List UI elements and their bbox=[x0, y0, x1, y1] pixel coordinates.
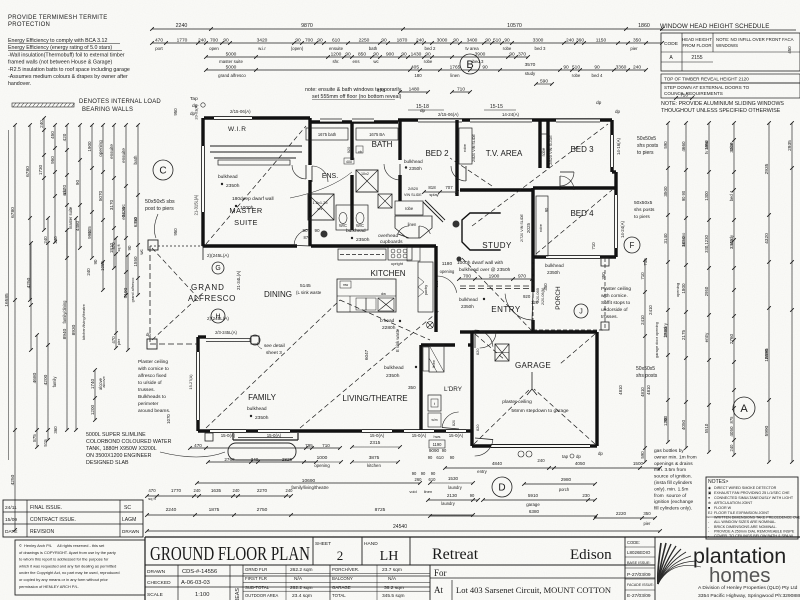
svg-text:350: 350 bbox=[601, 272, 606, 280]
svg-text:Edison: Edison bbox=[570, 547, 612, 563]
svg-text:5145: 5145 bbox=[300, 283, 311, 289]
svg-text:WRITTEN DIMENSIONS TAKE PRECED: WRITTEN DIMENSIONS TAKE PRECEDENCE OVE bbox=[714, 516, 800, 520]
svg-text:fill cylinders only).: fill cylinders only). bbox=[654, 506, 692, 512]
svg-text:LIVING/THEATRE: LIVING/THEATRE bbox=[342, 394, 407, 403]
svg-text:ensuite: ensuite bbox=[121, 148, 126, 163]
svg-text:opening: opening bbox=[314, 463, 330, 468]
svg-text:PROVIDE A 250mm DIAL REMOVEABL: PROVIDE A 250mm DIAL REMOVEABLE INSPE bbox=[714, 529, 795, 533]
svg-text:21-315L(A): 21-315L(A) bbox=[194, 194, 199, 215]
svg-text:90: 90 bbox=[509, 52, 515, 58]
svg-text:3400: 3400 bbox=[467, 38, 478, 44]
svg-text:study: study bbox=[729, 234, 734, 245]
svg-text:ignition (exchange: ignition (exchange bbox=[654, 499, 694, 505]
svg-text:overhead: overhead bbox=[378, 233, 398, 239]
svg-text:bulkhead: bulkhead bbox=[384, 365, 404, 371]
svg-text:1770: 1770 bbox=[171, 488, 182, 493]
svg-text:entry: entry bbox=[704, 332, 709, 342]
svg-text:1000: 1000 bbox=[317, 455, 328, 461]
svg-text:15-27(A): 15-27(A) bbox=[188, 374, 193, 390]
svg-text:9090: 9090 bbox=[429, 448, 440, 453]
svg-text:820: 820 bbox=[475, 348, 480, 355]
svg-text:GARAGE: GARAGE bbox=[515, 361, 551, 370]
svg-text:OUTDOOR AREA: OUTDOOR AREA bbox=[245, 593, 278, 598]
svg-text:AREAS: AREAS bbox=[235, 588, 241, 600]
svg-text:laundry: laundry bbox=[663, 322, 668, 336]
svg-text:3000: 3000 bbox=[437, 38, 448, 44]
svg-text:470: 470 bbox=[148, 488, 156, 493]
svg-text:1:100: 1:100 bbox=[195, 592, 209, 598]
svg-text:opening: opening bbox=[98, 140, 103, 157]
svg-text:950: 950 bbox=[173, 108, 178, 116]
svg-text:Energy Efficiency (energy rati: Energy Efficiency (energy rating of 5.0 … bbox=[8, 45, 112, 51]
svg-text:dp: dp bbox=[146, 332, 151, 337]
svg-text:16585: 16585 bbox=[4, 293, 10, 307]
svg-text:405: 405 bbox=[411, 65, 419, 71]
svg-text:with cornice to: with cornice to bbox=[138, 366, 169, 372]
svg-text:345.5 sqm: 345.5 sqm bbox=[382, 593, 405, 599]
svg-text:2/820 VIN SLIDE: 2/820 VIN SLIDE bbox=[548, 135, 553, 165]
svg-text:bath: bath bbox=[133, 155, 138, 164]
svg-text:2250: 2250 bbox=[359, 38, 370, 44]
svg-text:1635: 1635 bbox=[211, 488, 222, 493]
svg-text:240: 240 bbox=[198, 38, 206, 44]
svg-text:DATE: DATE bbox=[5, 529, 18, 535]
svg-text:WINDOWS: WINDOWS bbox=[716, 43, 738, 48]
svg-text:VIN SLIDE: VIN SLIDE bbox=[404, 193, 422, 197]
svg-text:G: G bbox=[215, 265, 220, 272]
svg-text:DENOTES INTERNAL LOAD: DENOTES INTERNAL LOAD bbox=[79, 99, 161, 105]
svg-text:linen: linen bbox=[408, 222, 417, 227]
svg-text:4810: 4810 bbox=[640, 387, 645, 397]
svg-text:4320: 4320 bbox=[764, 233, 770, 244]
svg-text:alcove: alcove bbox=[101, 376, 106, 387]
svg-text:590: 590 bbox=[640, 451, 645, 459]
svg-text:470: 470 bbox=[111, 336, 116, 344]
svg-text:90: 90 bbox=[317, 38, 323, 44]
svg-text:90: 90 bbox=[594, 65, 600, 71]
svg-text:N/A: N/A bbox=[294, 576, 303, 582]
svg-text:1500: 1500 bbox=[633, 461, 644, 466]
svg-text:COLORBOND COLOURED WATER: COLORBOND COLOURED WATER bbox=[86, 439, 172, 445]
svg-text:3170: 3170 bbox=[109, 199, 114, 210]
svg-text:90: 90 bbox=[421, 471, 426, 476]
svg-text:TOP OF TIMBER REVEAL HEIGHT 21: TOP OF TIMBER REVEAL HEIGHT 2120 bbox=[664, 77, 749, 82]
svg-text:240: 240 bbox=[194, 488, 202, 493]
svg-text:TOTAL: TOTAL bbox=[332, 593, 346, 598]
svg-text:to whom this report is address: to whom this report is addressed for the… bbox=[19, 557, 109, 562]
svg-text:1000h dwarf wall with: 1000h dwarf wall with bbox=[457, 260, 503, 266]
svg-text:w/m: w/m bbox=[431, 418, 437, 422]
svg-text:180: 180 bbox=[414, 73, 422, 78]
svg-text:330,1230: 330,1230 bbox=[704, 235, 709, 253]
svg-text:1800: 1800 bbox=[681, 283, 686, 294]
svg-text:5910: 5910 bbox=[528, 493, 539, 498]
svg-text:6780: 6780 bbox=[10, 207, 16, 218]
svg-text:262.2 sqm: 262.2 sqm bbox=[290, 585, 313, 591]
svg-text:360: 360 bbox=[576, 38, 584, 44]
svg-text:2750: 2750 bbox=[257, 507, 268, 513]
svg-text:2/3-245L(A): 2/3-245L(A) bbox=[215, 330, 237, 335]
svg-text:PROTECTION: PROTECTION bbox=[8, 22, 50, 28]
svg-text:framed walls (not between Hous: framed walls (not between House & Garage… bbox=[8, 60, 112, 66]
svg-text:6380: 6380 bbox=[529, 509, 540, 514]
svg-text:4680: 4680 bbox=[32, 372, 38, 383]
svg-text:ON 3500X1200 ENGINEER: ON 3500X1200 ENGINEER bbox=[86, 453, 152, 459]
svg-text:707: 707 bbox=[445, 185, 453, 190]
svg-text:970: 970 bbox=[518, 274, 526, 280]
svg-text:bulkhead: bulkhead bbox=[218, 174, 238, 180]
svg-text:entry: entry bbox=[477, 469, 488, 474]
svg-text:robe: robe bbox=[538, 223, 543, 232]
svg-text:ensuite: ensuite bbox=[109, 144, 114, 159]
svg-text:2350h: 2350h bbox=[409, 166, 422, 171]
svg-text:robe: robe bbox=[503, 46, 512, 51]
svg-text:A: A bbox=[740, 403, 748, 415]
svg-text:240: 240 bbox=[43, 236, 48, 244]
svg-text:510: 510 bbox=[493, 38, 501, 44]
svg-text:dw: dw bbox=[381, 291, 386, 296]
svg-text:5190: 5190 bbox=[123, 287, 129, 298]
svg-text:405: 405 bbox=[87, 226, 92, 234]
svg-text:BEARING WALLS: BEARING WALLS bbox=[82, 107, 133, 113]
svg-text:1770: 1770 bbox=[177, 38, 188, 44]
svg-text:850: 850 bbox=[358, 52, 366, 58]
svg-text:J: J bbox=[579, 309, 583, 316]
svg-text:23.4 sqm: 23.4 sqm bbox=[292, 593, 312, 599]
svg-text:-Wall insulation(Thermobuff) f: -Wall insulation(Thermobuff) foil to ext… bbox=[8, 52, 125, 58]
svg-text:gas bottles by: gas bottles by bbox=[654, 448, 684, 454]
svg-text:4250: 4250 bbox=[26, 277, 32, 288]
svg-text:1740: 1740 bbox=[90, 378, 95, 389]
svg-text:240: 240 bbox=[39, 120, 44, 128]
svg-text:EJ: EJ bbox=[708, 511, 712, 515]
svg-text:Lot 403 Sarsenet Circuit, MOUN: Lot 403 Sarsenet Circuit, MOUNT COTTON bbox=[456, 585, 611, 595]
svg-text:sq ft: sq ft bbox=[148, 496, 156, 501]
svg-text:14-24(A): 14-24(A) bbox=[502, 112, 520, 117]
svg-text:L'DRY: L'DRY bbox=[444, 386, 463, 393]
svg-text:mw: mw bbox=[343, 283, 349, 287]
svg-text:8940: 8940 bbox=[62, 328, 68, 339]
svg-text:2/15-06(A): 2/15-06(A) bbox=[438, 112, 459, 117]
svg-text:450: 450 bbox=[787, 46, 792, 54]
svg-text:3500: 3500 bbox=[663, 186, 668, 197]
svg-text:bulkhead: bulkhead bbox=[459, 297, 478, 302]
svg-text:400: 400 bbox=[346, 160, 352, 164]
svg-text:opening: opening bbox=[440, 269, 455, 274]
svg-text:CODE: CODE bbox=[664, 41, 679, 47]
svg-text:upright: upright bbox=[391, 261, 404, 266]
svg-text:820: 820 bbox=[452, 420, 456, 426]
svg-text:875: 875 bbox=[729, 416, 734, 424]
svg-text:E-27/03/09: E-27/03/09 bbox=[627, 593, 651, 599]
svg-text:90: 90 bbox=[431, 471, 436, 476]
svg-text:pantry: pantry bbox=[424, 285, 428, 295]
svg-text:2/720 VIN SLIDE: 2/720 VIN SLIDE bbox=[520, 213, 524, 242]
svg-text:trusses.: trusses. bbox=[138, 387, 155, 393]
svg-text:5990: 5990 bbox=[764, 425, 770, 436]
svg-text:STEP DOWN AT EXTERNAL DOORS TO: STEP DOWN AT EXTERNAL DOORS TO bbox=[664, 85, 750, 90]
svg-text:15/09: 15/09 bbox=[5, 517, 17, 523]
svg-text:pier: pier bbox=[644, 521, 652, 526]
svg-text:bulkhead: bulkhead bbox=[545, 263, 564, 268]
svg-text:4200: 4200 bbox=[43, 374, 49, 385]
svg-text:90: 90 bbox=[563, 65, 569, 71]
svg-text:linen: linen bbox=[450, 73, 460, 78]
svg-text:6047: 6047 bbox=[364, 349, 369, 360]
svg-text:pier: pier bbox=[117, 338, 121, 345]
svg-text:1875: 1875 bbox=[209, 507, 220, 513]
svg-text:COUNCIL REQUIREMENTS: COUNCIL REQUIREMENTS bbox=[664, 91, 723, 96]
svg-text:BED 3: BED 3 bbox=[570, 145, 594, 154]
svg-text:90: 90 bbox=[314, 228, 320, 233]
svg-text:700: 700 bbox=[463, 274, 471, 280]
svg-text:under the Copyright Act, no pa: under the Copyright Act, no part may be … bbox=[19, 570, 120, 575]
svg-text:90: 90 bbox=[223, 38, 229, 44]
svg-text:BASE ISSUE:: BASE ISSUE: bbox=[627, 561, 651, 565]
svg-text:ensuite: ensuite bbox=[329, 46, 344, 51]
svg-text:ens: ens bbox=[352, 59, 360, 64]
svg-text:15-0(A): 15-0(A) bbox=[412, 433, 427, 438]
svg-text:24/11: 24/11 bbox=[5, 505, 17, 511]
svg-text:23.7 sqm: 23.7 sqm bbox=[382, 567, 402, 573]
svg-text:●: ● bbox=[708, 496, 710, 500]
svg-text:L8026EDIO: L8026EDIO bbox=[627, 550, 651, 555]
svg-text:1765: 1765 bbox=[450, 65, 461, 71]
svg-text:DRAWN: DRAWN bbox=[147, 569, 166, 575]
svg-text:FIRST FLR: FIRST FLR bbox=[245, 576, 267, 581]
svg-text:230: 230 bbox=[582, 493, 590, 498]
svg-text:2350h: 2350h bbox=[255, 415, 269, 421]
svg-text:Plaster ceiling: Plaster ceiling bbox=[138, 359, 168, 365]
svg-text:kitchen/living/theatre: kitchen/living/theatre bbox=[81, 304, 86, 340]
svg-text:340: 340 bbox=[251, 457, 259, 462]
svg-text:90: 90 bbox=[470, 493, 475, 498]
svg-text:2760: 2760 bbox=[729, 333, 734, 344]
svg-text:bulkhead: bulkhead bbox=[404, 159, 423, 164]
svg-text:350: 350 bbox=[408, 385, 416, 390]
svg-text:-Assumes medium colours & drap: -Assumes medium colours & drapes by owne… bbox=[8, 74, 128, 80]
svg-text:2240: 2240 bbox=[176, 23, 188, 29]
svg-text:180deep dwarf wall: 180deep dwarf wall bbox=[232, 196, 274, 202]
svg-text:1070: 1070 bbox=[166, 414, 171, 424]
svg-text:Plaster ceiling: Plaster ceiling bbox=[601, 286, 631, 292]
svg-text:875: 875 bbox=[32, 434, 37, 442]
svg-text:PROVIDE TERMIMESH TERMITE: PROVIDE TERMIMESH TERMITE bbox=[8, 15, 107, 21]
svg-text:linen: linen bbox=[431, 360, 436, 368]
svg-text:laundry: laundry bbox=[448, 485, 462, 490]
svg-text:1480: 1480 bbox=[409, 87, 420, 93]
svg-text:H: H bbox=[215, 314, 220, 321]
svg-text:BRICK DIMENSIONS ARE NOMINAL.: BRICK DIMENSIONS ARE NOMINAL. bbox=[714, 525, 777, 529]
svg-text:2935: 2935 bbox=[787, 140, 793, 151]
svg-text:FAMILY: FAMILY bbox=[248, 393, 277, 402]
svg-text:bed 2: bed 2 bbox=[425, 46, 436, 51]
svg-text:3875: 3875 bbox=[369, 455, 380, 461]
svg-text:2350h: 2350h bbox=[386, 373, 400, 379]
svg-text:ENTRY: ENTRY bbox=[491, 305, 521, 314]
svg-text:opening: opening bbox=[675, 283, 680, 297]
svg-text:510: 510 bbox=[572, 65, 580, 71]
svg-text:W.I.R: W.I.R bbox=[228, 126, 246, 133]
svg-text:At: At bbox=[434, 585, 443, 595]
svg-text:2350h: 2350h bbox=[226, 183, 240, 189]
svg-text:350: 350 bbox=[643, 511, 651, 516]
svg-text:1675 bath: 1675 bath bbox=[318, 132, 337, 137]
svg-text:2)(245L(A): 2)(245L(A) bbox=[207, 253, 229, 258]
svg-text:FACADE ISSUE:: FACADE ISSUE: bbox=[627, 583, 654, 587]
svg-text:10x2: 10x2 bbox=[361, 172, 369, 176]
svg-text:family: family bbox=[52, 376, 57, 388]
svg-text:C: C bbox=[159, 166, 166, 177]
svg-text:5000: 5000 bbox=[226, 52, 237, 58]
svg-text:DINING: DINING bbox=[264, 290, 292, 299]
svg-text:90: 90 bbox=[453, 38, 459, 44]
svg-text:to piers: to piers bbox=[634, 214, 650, 220]
svg-text:wc: wc bbox=[139, 249, 144, 255]
svg-text:90 90: 90 90 bbox=[681, 190, 686, 201]
svg-text:ALFRESCO: ALFRESCO bbox=[188, 294, 236, 303]
svg-text:ALL WINDOW SIZES ARE NOMINAL.: ALL WINDOW SIZES ARE NOMINAL. bbox=[714, 520, 776, 524]
svg-text:370: 370 bbox=[518, 52, 526, 58]
svg-text:4810: 4810 bbox=[618, 385, 623, 395]
svg-text:handover.: handover. bbox=[8, 81, 31, 87]
svg-text:56mm stepdown to garage: 56mm stepdown to garage bbox=[511, 408, 568, 414]
svg-text:WINDOW HEAD HEIGHT SCHEDULE: WINDOW HEAD HEIGHT SCHEDULE bbox=[660, 23, 769, 30]
svg-text:1530: 1530 bbox=[448, 476, 459, 481]
svg-text:PORCH/VER.: PORCH/VER. bbox=[332, 567, 359, 572]
svg-text:CONTRACT ISSUE.: CONTRACT ISSUE. bbox=[30, 517, 76, 523]
svg-text:TANK, 1880H X950W X3200L: TANK, 1880H X950W X3200L bbox=[86, 446, 157, 452]
svg-text:grand alfresco: grand alfresco bbox=[218, 73, 246, 78]
svg-text:(insta fill cylinders: (insta fill cylinders bbox=[654, 480, 693, 486]
svg-text:350: 350 bbox=[543, 283, 548, 291]
svg-text:90: 90 bbox=[544, 207, 549, 212]
svg-text:6310: 6310 bbox=[133, 216, 138, 227]
svg-text:FINAL ISSUE.: FINAL ISSUE. bbox=[30, 505, 62, 511]
svg-text:90: 90 bbox=[450, 455, 455, 460]
svg-text:dp: dp bbox=[615, 109, 621, 114]
svg-text:14-16(A): 14-16(A) bbox=[616, 137, 621, 155]
svg-text:5000L SUPER SLIMLINE: 5000L SUPER SLIMLINE bbox=[86, 432, 146, 438]
svg-text:2350h: 2350h bbox=[461, 304, 474, 309]
svg-text:240: 240 bbox=[537, 458, 545, 463]
svg-text:CONNECTED SIMULTANEOUSLY WITH: CONNECTED SIMULTANEOUSLY WITH LIGHT bbox=[714, 496, 794, 500]
svg-text:E sink waste: E sink waste bbox=[395, 328, 400, 352]
svg-text:300: 300 bbox=[434, 280, 439, 288]
svg-text:pier: pier bbox=[630, 46, 638, 51]
svg-text:or copied by any means or in a: or copied by any means or in any form wi… bbox=[19, 577, 108, 582]
svg-text:Energy Efficiency to comply wi: Energy Efficiency to comply with BCA 3.1… bbox=[8, 38, 107, 44]
svg-text:robe: robe bbox=[405, 206, 414, 211]
svg-text:90: 90 bbox=[504, 38, 510, 44]
svg-text:3140: 3140 bbox=[663, 233, 668, 244]
svg-text:90: 90 bbox=[75, 180, 80, 186]
svg-text:1190: 1190 bbox=[433, 442, 443, 447]
svg-text:alfresco fixed: alfresco fixed bbox=[138, 373, 167, 379]
svg-text:10570: 10570 bbox=[507, 23, 522, 29]
svg-text:1675 BA: 1675 BA bbox=[369, 132, 385, 137]
svg-text:shs posts: shs posts bbox=[634, 207, 655, 213]
svg-text:void: void bbox=[409, 489, 416, 494]
svg-text:4810: 4810 bbox=[646, 385, 651, 395]
svg-text:PORCH: PORCH bbox=[555, 286, 562, 310]
svg-text:SUB-TOTAL: SUB-TOTAL bbox=[245, 585, 270, 590]
svg-text:470: 470 bbox=[194, 443, 202, 448]
svg-text:family/dining: family/dining bbox=[62, 300, 67, 324]
svg-text:BED 4: BED 4 bbox=[570, 209, 594, 218]
svg-text:tv area: tv area bbox=[465, 46, 479, 51]
svg-text:w.i.r: w.i.r bbox=[62, 188, 67, 196]
svg-text:Bulkheads to: Bulkheads to bbox=[138, 394, 166, 400]
svg-text:240: 240 bbox=[286, 488, 294, 493]
svg-text:robe: robe bbox=[541, 147, 546, 156]
svg-text:2935: 2935 bbox=[764, 163, 770, 174]
svg-text:90: 90 bbox=[412, 471, 417, 476]
svg-text:port: port bbox=[155, 46, 163, 51]
svg-text:50x50x5: 50x50x5 bbox=[637, 136, 656, 142]
svg-text:HEAD HEIGHT: HEAD HEIGHT bbox=[682, 37, 712, 42]
svg-text:240: 240 bbox=[729, 444, 734, 452]
svg-text:90: 90 bbox=[425, 52, 431, 58]
svg-text:2980: 2980 bbox=[561, 477, 572, 482]
svg-text:1900: 1900 bbox=[87, 141, 92, 152]
svg-text:240: 240 bbox=[86, 268, 91, 276]
svg-text:Soffit stops to: Soffit stops to bbox=[601, 300, 630, 306]
svg-text:2410: 2410 bbox=[640, 315, 645, 325]
svg-text:LH: LH bbox=[380, 549, 399, 564]
svg-text:garage: garage bbox=[526, 502, 540, 507]
svg-text:only). min. 1.5m: only). min. 1.5m bbox=[654, 486, 688, 492]
svg-text:CHECKED: CHECKED bbox=[147, 580, 171, 586]
svg-text:homes: homes bbox=[709, 564, 771, 587]
svg-text:DRAWN: DRAWN bbox=[122, 529, 139, 534]
svg-text:2315: 2315 bbox=[370, 440, 381, 446]
svg-text:STUDY: STUDY bbox=[482, 241, 512, 250]
svg-text:2175: 2175 bbox=[681, 329, 686, 340]
svg-text:set 555mm off floor (no bottom: set 555mm off floor (no bottom reveal) bbox=[312, 94, 402, 100]
svg-text:1300: 1300 bbox=[704, 191, 709, 201]
svg-text:robe: robe bbox=[729, 142, 734, 151]
svg-text:W/C: W/C bbox=[339, 223, 347, 228]
svg-text:1860: 1860 bbox=[638, 23, 650, 29]
svg-text:15-0(A): 15-0(A) bbox=[449, 433, 464, 438]
svg-text:260: 260 bbox=[415, 477, 423, 482]
svg-text:from source of: from source of bbox=[654, 493, 687, 499]
svg-text:SHEET: SHEET bbox=[315, 541, 331, 547]
svg-text:-R2.5 insulation batts to roof: -R2.5 insulation batts to roof space inc… bbox=[8, 67, 130, 73]
svg-text:4250: 4250 bbox=[10, 474, 16, 485]
svg-text:NOTE: PROVIDE ALUMINIUM SLIDIN: NOTE: PROVIDE ALUMINIUM SLIDING WINDOWS bbox=[661, 101, 784, 107]
svg-text:W/C: W/C bbox=[356, 223, 364, 228]
svg-text:GRND FLR: GRND FLR bbox=[245, 567, 267, 572]
svg-text:© Henley Arch P/L All rig: © Henley Arch P/L All rights reserved - … bbox=[19, 543, 105, 548]
svg-text:1.8x1.25: 1.8x1.25 bbox=[313, 200, 329, 205]
svg-text:90: 90 bbox=[345, 52, 351, 58]
svg-text:1950: 1950 bbox=[704, 140, 709, 150]
svg-text:NOTES>: NOTES> bbox=[708, 479, 728, 485]
svg-text:2950: 2950 bbox=[704, 286, 709, 296]
svg-text:1200: 1200 bbox=[90, 404, 95, 415]
svg-text:GRAND: GRAND bbox=[191, 283, 225, 292]
svg-text:(L sink waste: (L sink waste bbox=[296, 290, 322, 295]
svg-text:2350h: 2350h bbox=[356, 237, 370, 243]
svg-text:LAGM: LAGM bbox=[122, 517, 136, 523]
svg-text:laundry: laundry bbox=[441, 501, 455, 506]
svg-text:tap: tap bbox=[562, 454, 569, 459]
svg-text:15-0(A): 15-0(A) bbox=[267, 433, 282, 438]
svg-text:SC: SC bbox=[124, 505, 131, 511]
svg-text:around beams.: around beams. bbox=[138, 408, 170, 414]
